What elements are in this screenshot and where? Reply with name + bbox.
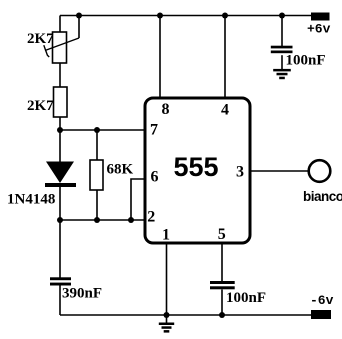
junction pin1/bottom rail (164, 312, 170, 318)
wire pin1 to rail (166, 243, 168, 315)
wire 100nF bottom lead (221, 290, 223, 316)
wire top supply rail (60, 15, 311, 17)
junction 100nF/top rail (279, 13, 285, 19)
svg-text:8: 8 (162, 101, 170, 118)
svg-text:7: 7 (150, 122, 158, 139)
wire top cap lead (281, 16, 283, 47)
wire diode anode lead (59, 130, 61, 162)
svg-text:1N4148: 1N4148 (7, 192, 55, 208)
svg-text:68K: 68K (107, 162, 134, 178)
op-amp/timer U1 555 body (145, 98, 250, 243)
capacitor 100nF bottom plates (210, 281, 235, 284)
svg-text:3: 3 (236, 164, 244, 181)
ground top right (273, 69, 291, 79)
output node bianco (309, 160, 331, 182)
wire trimmer top lead (59, 16, 61, 33)
svg-text:2: 2 (147, 209, 155, 226)
capacitor 390nF plates (50, 277, 71, 280)
junction 100nF/bottom rail (219, 312, 225, 318)
svg-text:1: 1 (162, 227, 170, 244)
wiper end tick (44, 45, 49, 57)
junction node pin2 row 68K (94, 217, 100, 223)
wire top cap to ground (281, 55, 283, 69)
resistor 68K body (90, 160, 103, 190)
svg-text:-6v: -6v (310, 293, 334, 308)
svg-text:100nF: 100nF (226, 290, 266, 306)
wire pin8 to rail (159, 16, 161, 99)
wire diode cathode lead (59, 187, 61, 220)
wire pin4 to rail (224, 16, 226, 99)
svg-text:6: 6 (151, 169, 159, 186)
svg-text:390nF: 390nF (62, 286, 102, 302)
wire resistor R2 bottom lead (59, 117, 61, 130)
svg-text:2K7: 2K7 (27, 98, 54, 114)
resistor R2 body (54, 87, 68, 117)
junction node pin7 row 68K (94, 127, 100, 133)
diode cathode bar (45, 183, 76, 187)
wire pin5 to cap (221, 243, 223, 281)
wire 68K bottom lead (96, 190, 98, 220)
wire node row pin7 (60, 129, 145, 131)
capacitor 100nF top plates (271, 46, 293, 49)
wire 390nF bottom lead (59, 286, 61, 316)
junction wiper/top rail (76, 13, 82, 19)
junction pin8/top rail (157, 13, 163, 19)
wire pin3 to output (250, 170, 309, 172)
wire trimmer wiper diagonal (44, 38, 79, 57)
junction node pin2 row pin6 (128, 217, 134, 223)
wire pin6 jumper (131, 179, 145, 220)
wire bottom rail (60, 314, 311, 316)
wire 68K top lead (96, 130, 98, 160)
trimmer R1 body (53, 32, 67, 63)
svg-text:bianco: bianco (303, 189, 342, 204)
junction pin4/top rail (222, 13, 228, 19)
svg-text:4: 4 (221, 102, 229, 119)
wire trimmer wiper vertical (78, 16, 80, 39)
wire left column to 390nF (59, 220, 61, 278)
svg-text:555: 555 (173, 152, 218, 182)
terminal +6v (311, 13, 330, 21)
diode D1 1N4148 triangle (46, 162, 74, 184)
wire node row pin2 (60, 219, 145, 221)
ground bottom (159, 323, 174, 333)
wire trimmer to resistor (59, 63, 61, 87)
svg-text:100nF: 100nF (286, 53, 326, 69)
svg-text:+6v: +6v (307, 22, 331, 37)
terminal -6v (311, 310, 331, 319)
junction node pin2 row left (57, 217, 63, 223)
svg-text:2K7: 2K7 (27, 31, 54, 47)
wire ground stub bottom (166, 315, 168, 323)
svg-text:5: 5 (218, 226, 226, 243)
junction node pin7 row left (57, 127, 63, 133)
